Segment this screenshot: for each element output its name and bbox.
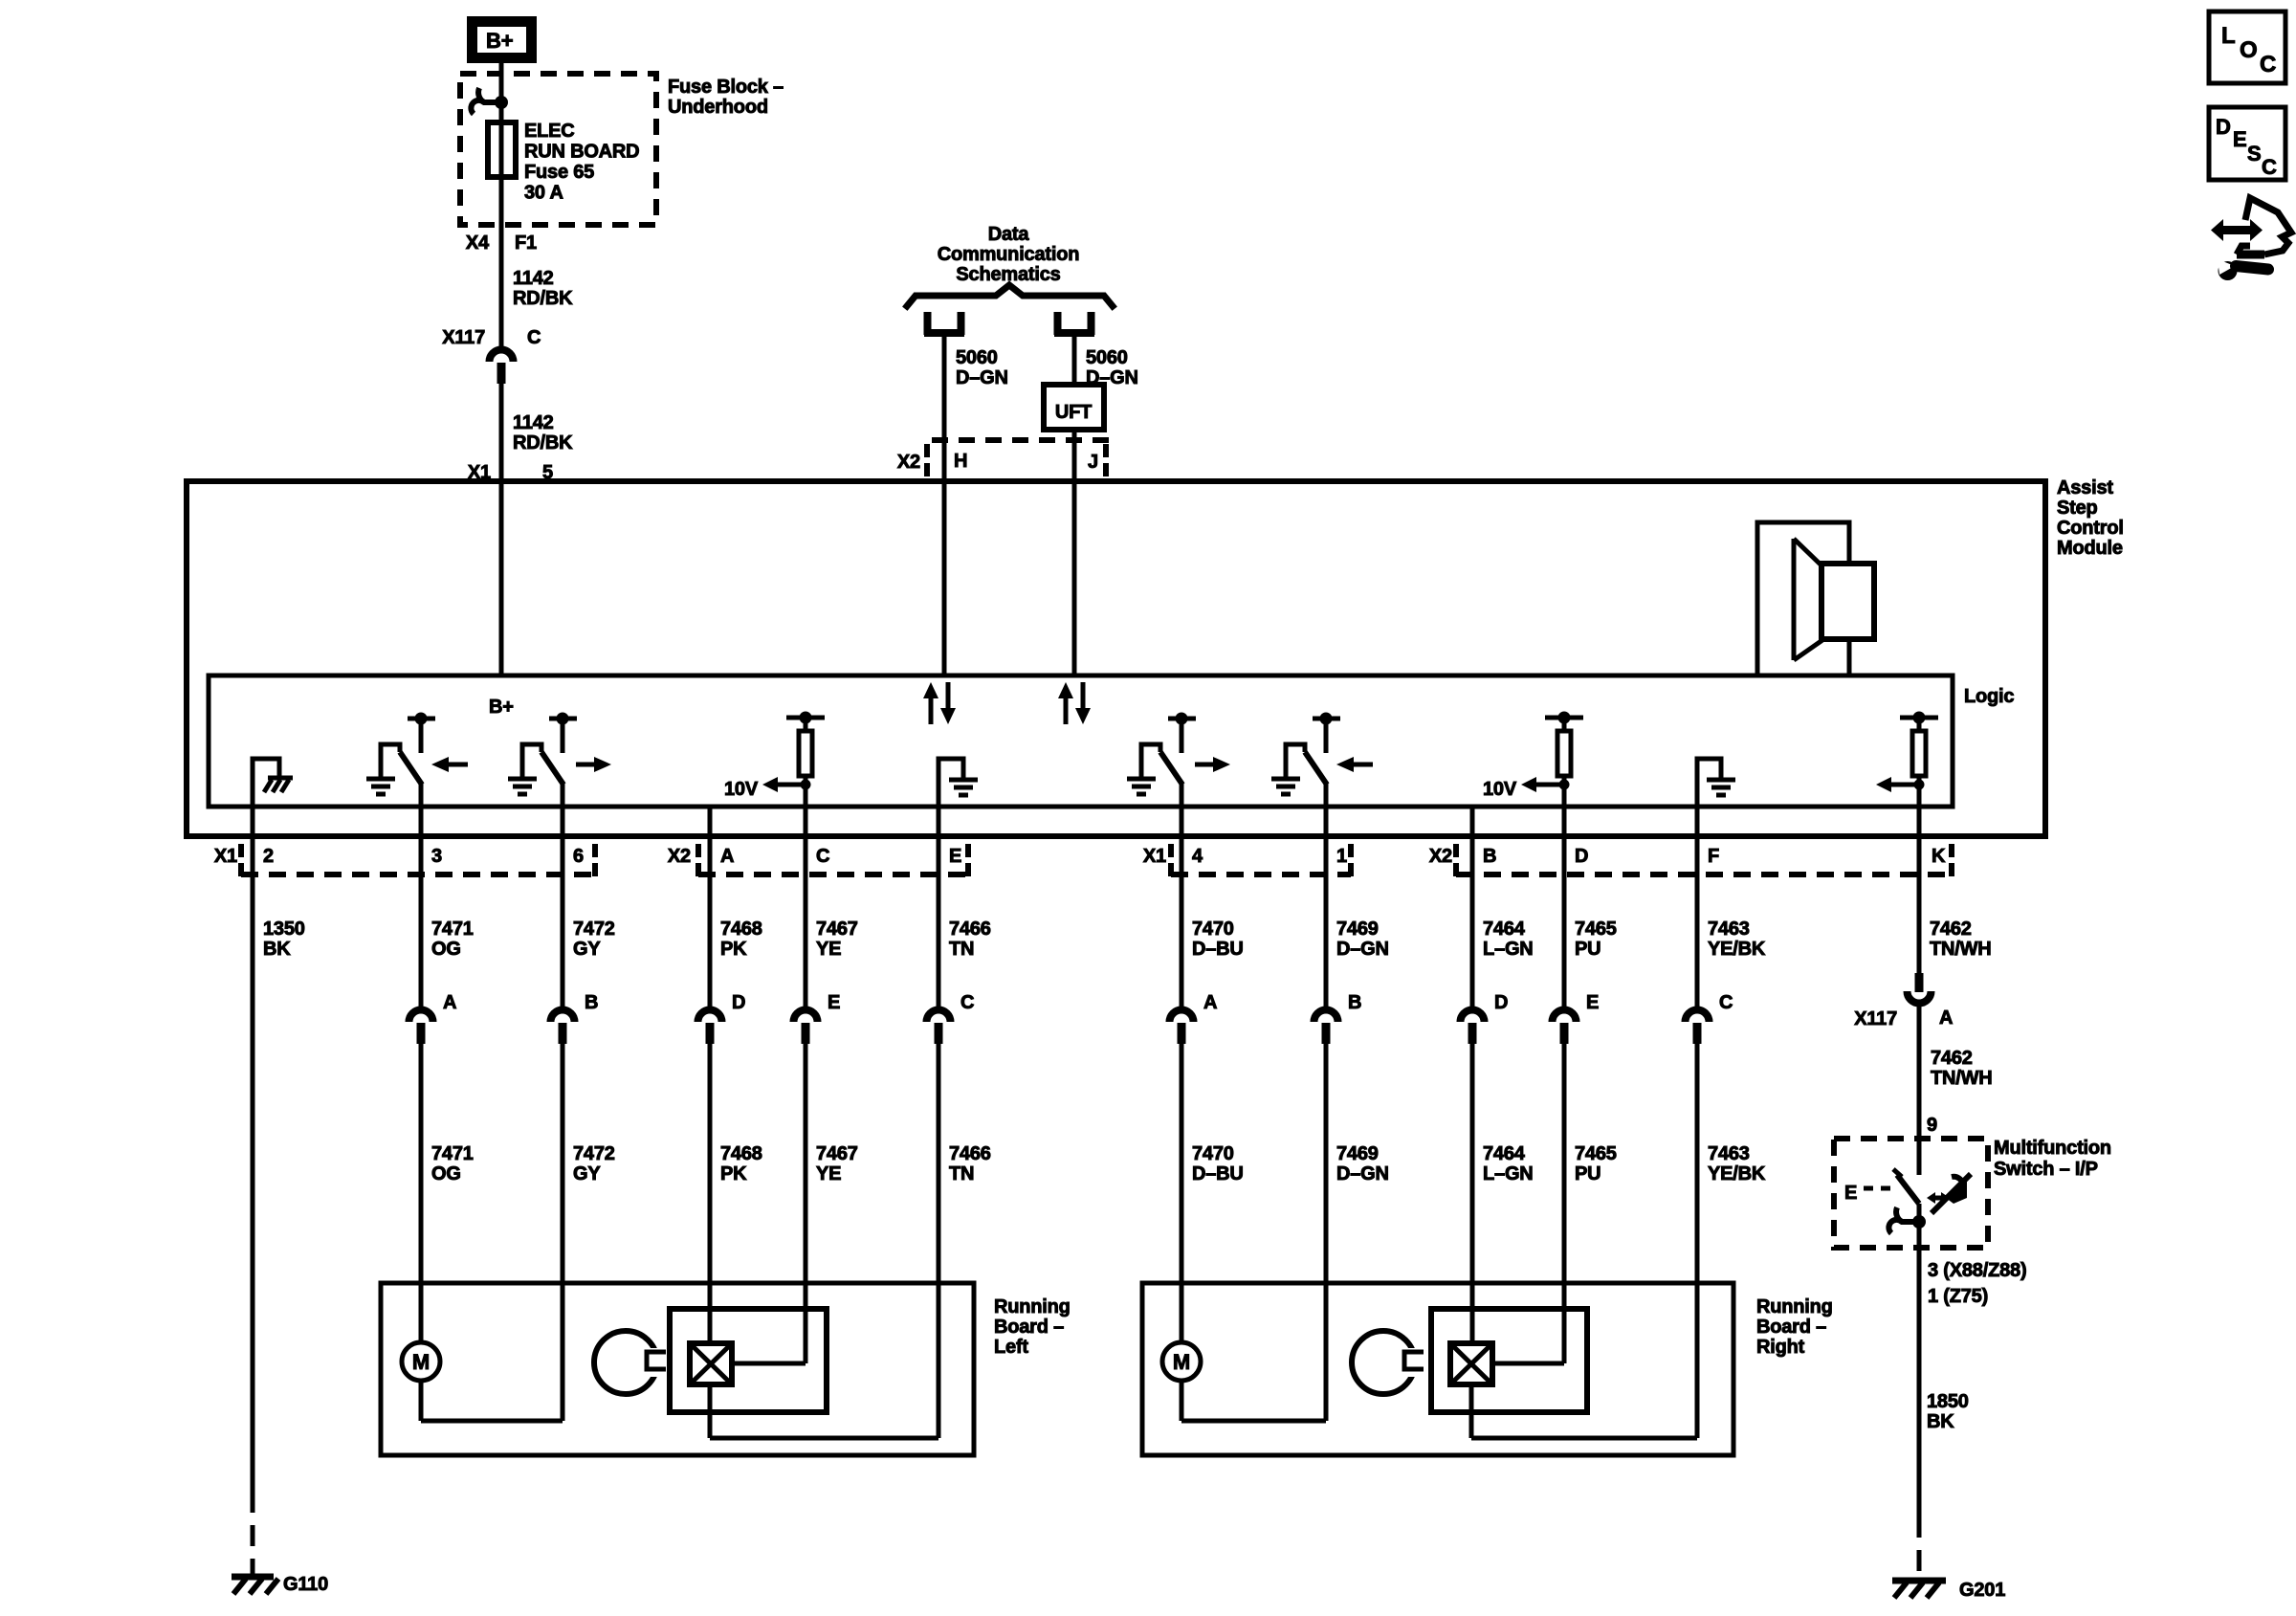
svg-text:7464: 7464 <box>1483 1143 1526 1164</box>
pin row dashed X2 left <box>698 872 968 877</box>
svg-text:BK: BK <box>263 939 291 960</box>
wire 7465 PU upper <box>1562 807 1567 1007</box>
svg-text:6: 6 <box>573 846 584 867</box>
svg-text:X117: X117 <box>442 327 485 348</box>
fuse block dashed box <box>460 74 656 225</box>
wire 7469 D–GN upper <box>1324 807 1329 1007</box>
wire 7466 TN lower <box>937 1042 941 1438</box>
wire to G110 dashed <box>251 1492 255 1575</box>
wire 7469 D–GN lower <box>1324 1042 1329 1421</box>
data arrows J <box>1064 697 1069 724</box>
brace <box>907 285 1113 306</box>
step icon MFS <box>1946 1177 1967 1204</box>
svg-text:7468: 7468 <box>720 1143 762 1164</box>
svg-text:Board –: Board – <box>994 1317 1064 1338</box>
svg-text:A: A <box>720 846 734 867</box>
wire 7463 YE/BK upper <box>1695 807 1700 1007</box>
svg-text:X4: X4 <box>466 232 490 254</box>
svg-text:1850: 1850 <box>1927 1391 1969 1412</box>
switch extend left <box>408 717 435 721</box>
svg-text:O: O <box>2240 37 2257 63</box>
svg-text:YE/BK: YE/BK <box>1708 939 1766 960</box>
svg-text:30 A: 30 A <box>524 183 563 204</box>
svg-text:1350: 1350 <box>263 919 305 940</box>
wire solenoid bottom left <box>708 1384 713 1438</box>
solenoid coil left <box>690 1343 732 1384</box>
speaker <box>1757 522 1849 675</box>
svg-text:X2: X2 <box>668 846 691 867</box>
svg-text:3: 3 <box>431 846 442 867</box>
wire 7464 L–GN lower <box>1470 1042 1475 1343</box>
wire to G201 dashed <box>1917 1516 1922 1577</box>
svg-text:Control: Control <box>2057 518 2124 539</box>
svg-text:TN/WH: TN/WH <box>1931 1068 1993 1089</box>
wire 1142 RD/BK to module <box>499 382 504 675</box>
box Running Board Left <box>381 1283 974 1455</box>
svg-text:TN: TN <box>949 1163 974 1184</box>
svg-text:Switch – I/P: Switch – I/P <box>1994 1159 2098 1180</box>
switch extend right <box>1168 717 1196 721</box>
svg-text:YE: YE <box>816 939 841 960</box>
svg-text:A: A <box>443 992 456 1013</box>
svg-text:Running: Running <box>1756 1296 1833 1317</box>
svg-text:1142: 1142 <box>513 268 554 289</box>
wire motor loop left <box>419 1381 424 1421</box>
wire 7468 PK lower <box>708 1042 713 1343</box>
fuse element hook <box>495 96 508 109</box>
svg-text:7466: 7466 <box>949 919 991 940</box>
svg-text:9: 9 <box>1927 1115 1937 1136</box>
svg-text:1142: 1142 <box>513 412 554 433</box>
wire 7462 TN/WH lower <box>1917 1007 1922 1175</box>
wire 7472 GY upper <box>561 807 565 1007</box>
svg-text:7462: 7462 <box>1931 1048 1973 1069</box>
wire below MFS <box>1917 1204 1922 1516</box>
svg-text:D: D <box>732 992 745 1013</box>
svg-text:YE/BK: YE/BK <box>1708 1163 1766 1184</box>
pin row dashed X1 right <box>1171 872 1351 877</box>
svg-text:A: A <box>1203 992 1217 1013</box>
connector terminal B <box>551 1009 575 1022</box>
svg-text:X2: X2 <box>1429 846 1452 867</box>
svg-text:B+: B+ <box>486 29 513 53</box>
svg-text:J: J <box>1088 452 1098 473</box>
svg-text:PK: PK <box>720 939 747 960</box>
svg-text:7468: 7468 <box>720 919 762 940</box>
wire 5060 D-GN left <box>942 335 947 675</box>
svg-text:C: C <box>2260 52 2276 77</box>
connector terminal A <box>409 1009 433 1022</box>
connector terminal A <box>1170 1009 1194 1022</box>
svg-text:D–GN: D–GN <box>1336 1163 1389 1184</box>
position sensor left <box>594 1331 657 1394</box>
svg-text:GY: GY <box>573 1163 601 1184</box>
data arrows H <box>929 697 934 724</box>
box UFT <box>1044 385 1104 430</box>
svg-text:D: D <box>2216 115 2231 139</box>
off-page connector right <box>1054 312 1062 335</box>
wire 7466 TN upper <box>937 807 941 1007</box>
pin row dashed X2 right <box>1456 872 1952 877</box>
motor M left <box>402 1342 440 1381</box>
clean ground pin E <box>938 759 963 808</box>
svg-text:RUN BOARD: RUN BOARD <box>524 142 639 163</box>
connector terminal E <box>794 1009 818 1022</box>
svg-text:F: F <box>1708 846 1719 867</box>
svg-text:B: B <box>1483 846 1496 867</box>
svg-text:7470: 7470 <box>1192 919 1234 940</box>
svg-text:7472: 7472 <box>573 919 615 940</box>
svg-text:Board –: Board – <box>1756 1317 1826 1338</box>
wire solenoid bottom right <box>1469 1384 1474 1438</box>
svg-text:TN: TN <box>949 939 974 960</box>
connector terminal C <box>1686 1009 1710 1022</box>
svg-text:7463: 7463 <box>1708 1143 1750 1164</box>
position sensor right <box>1352 1331 1415 1394</box>
fuse F65 30A <box>488 122 516 177</box>
svg-text:7471: 7471 <box>431 919 474 940</box>
wire 7470 D–BU lower <box>1180 1042 1184 1342</box>
svg-text:Communication: Communication <box>938 244 1080 265</box>
svg-text:X2: X2 <box>897 452 920 473</box>
resistor driver 10V left <box>786 716 825 720</box>
svg-text:H: H <box>954 451 967 472</box>
svg-text:1: 1 <box>1336 846 1347 867</box>
svg-text:Logic: Logic <box>1964 686 2014 707</box>
svg-text:7465: 7465 <box>1575 1143 1617 1164</box>
svg-text:5060: 5060 <box>956 347 998 368</box>
wire 7462 TN/WH upper <box>1917 807 1922 973</box>
svg-text:7462: 7462 <box>1930 919 1972 940</box>
svg-text:7469: 7469 <box>1336 1143 1379 1164</box>
svg-text:7463: 7463 <box>1708 919 1750 940</box>
svg-text:5060: 5060 <box>1086 347 1128 368</box>
svg-text:L: L <box>2221 23 2235 49</box>
svg-text:C: C <box>1719 992 1733 1013</box>
svg-text:Right: Right <box>1756 1337 1805 1358</box>
svg-text:7465: 7465 <box>1575 919 1617 940</box>
svg-text:10V: 10V <box>1483 779 1517 800</box>
connector terminal D <box>1461 1009 1485 1022</box>
clean ground pin F <box>1697 759 1721 808</box>
multifunction switch dashed box <box>1834 1139 1988 1248</box>
wire solenoid to E left <box>732 1361 806 1366</box>
svg-text:X1: X1 <box>214 846 237 867</box>
solenoid outer left <box>670 1309 827 1412</box>
connector terminal E <box>1553 1009 1577 1022</box>
wire 7463 YE/BK lower <box>1695 1042 1700 1438</box>
icon adjustable component <box>2222 226 2251 234</box>
switch retract right <box>1313 717 1340 721</box>
svg-text:ELEC: ELEC <box>524 121 575 142</box>
svg-text:C: C <box>2262 155 2277 179</box>
wire 7471 OG upper <box>419 807 424 1007</box>
svg-text:Multifunction: Multifunction <box>1994 1138 2111 1159</box>
svg-text:1 (Z75): 1 (Z75) <box>1928 1286 1988 1307</box>
wire 7467 YE lower <box>804 1042 808 1363</box>
svg-text:D–GN: D–GN <box>956 367 1008 388</box>
svg-text:B: B <box>1348 992 1361 1013</box>
svg-text:B+: B+ <box>489 697 514 718</box>
svg-text:OG: OG <box>431 1163 461 1184</box>
resistor driver 10V right <box>1545 716 1583 720</box>
svg-text:UFT: UFT <box>1055 402 1092 423</box>
svg-text:D: D <box>1575 846 1588 867</box>
svg-text:C: C <box>960 992 974 1013</box>
svg-text:7466: 7466 <box>949 1143 991 1164</box>
svg-text:A: A <box>1939 1007 1953 1029</box>
svg-text:7469: 7469 <box>1336 919 1379 940</box>
wire 7465 PU lower <box>1562 1042 1567 1363</box>
svg-text:D–BU: D–BU <box>1192 1163 1244 1184</box>
svg-text:C: C <box>527 327 541 348</box>
svg-text:10V: 10V <box>724 779 759 800</box>
wire UFT to module <box>1072 430 1077 675</box>
svg-text:BK: BK <box>1927 1411 1954 1432</box>
detent hook MFS <box>1912 1215 1926 1229</box>
svg-text:YE: YE <box>816 1163 841 1184</box>
wire 7467 YE upper <box>804 807 808 1007</box>
wire solenoid to E right <box>1492 1361 1564 1366</box>
logic box <box>209 675 1953 807</box>
solenoid coil right <box>1450 1343 1492 1384</box>
svg-text:PK: PK <box>720 1163 747 1184</box>
box Running Board Right <box>1142 1283 1733 1455</box>
solenoid outer right <box>1431 1309 1587 1412</box>
svg-text:PU: PU <box>1575 939 1601 960</box>
icon DESC <box>2209 107 2285 180</box>
svg-text:Underhood: Underhood <box>668 97 768 118</box>
svg-text:M: M <box>412 1350 430 1374</box>
motor M right <box>1162 1342 1201 1381</box>
connector X2 dashed line pins H J <box>932 437 1112 443</box>
svg-text:D–BU: D–BU <box>1192 939 1244 960</box>
svg-text:TN/WH: TN/WH <box>1930 939 1992 960</box>
svg-text:Left: Left <box>994 1337 1028 1358</box>
off-page connector left <box>924 312 932 335</box>
svg-text:M: M <box>1173 1350 1190 1374</box>
svg-text:OG: OG <box>431 939 461 960</box>
chassis ground in logic pin 2 <box>253 759 279 808</box>
connector terminal B <box>1314 1009 1338 1022</box>
svg-text:K: K <box>1932 846 1946 867</box>
svg-text:E: E <box>1586 992 1599 1013</box>
wire B+ to fuse block <box>499 63 504 346</box>
svg-text:7472: 7472 <box>573 1143 615 1164</box>
wire 7472 GY lower <box>561 1042 565 1421</box>
pin row dashed X1 left <box>241 872 595 877</box>
icon LOC <box>2209 11 2285 83</box>
switch retract left <box>549 717 577 721</box>
svg-text:7467: 7467 <box>816 1143 858 1164</box>
svg-text:E: E <box>949 846 961 867</box>
svg-text:7464: 7464 <box>1483 919 1526 940</box>
svg-text:C: C <box>816 846 829 867</box>
wire 7468 PK upper <box>708 807 713 1007</box>
power symbol B+ <box>473 22 532 58</box>
svg-text:G201: G201 <box>1959 1580 2005 1601</box>
svg-text:Fuse 65: Fuse 65 <box>524 162 594 183</box>
svg-text:PU: PU <box>1575 1163 1601 1184</box>
wire 7471 OG lower <box>419 1042 424 1342</box>
svg-text:GY: GY <box>573 939 601 960</box>
wire 7470 D–BU upper <box>1180 807 1184 1007</box>
svg-text:Step: Step <box>2057 498 2098 519</box>
svg-text:RD/BK: RD/BK <box>513 432 573 454</box>
svg-text:7467: 7467 <box>816 919 858 940</box>
svg-text:3 (X88/Z88): 3 (X88/Z88) <box>1928 1260 2026 1281</box>
wire 5060 D-GN right <box>1072 335 1077 385</box>
wire 1350 BK <box>251 807 255 1492</box>
connector terminal D <box>698 1009 722 1022</box>
svg-text:E: E <box>1844 1183 1857 1204</box>
svg-text:G110: G110 <box>283 1574 328 1595</box>
svg-text:F1: F1 <box>515 232 537 254</box>
svg-text:2: 2 <box>263 846 274 867</box>
module box Assist Step Control Module <box>187 481 2045 836</box>
connector X117 pin A <box>1915 973 1924 992</box>
ground G110 <box>232 1574 274 1581</box>
svg-text:S: S <box>2247 142 2261 166</box>
svg-text:X117: X117 <box>1854 1008 1897 1029</box>
svg-text:E: E <box>828 992 840 1013</box>
svg-text:L–GN: L–GN <box>1483 1163 1534 1184</box>
svg-text:7470: 7470 <box>1192 1143 1234 1164</box>
svg-text:RD/BK: RD/BK <box>513 288 573 309</box>
svg-text:Fuse Block –: Fuse Block – <box>668 77 784 98</box>
wire motor loop right <box>1180 1381 1184 1421</box>
svg-text:Data: Data <box>988 224 1030 245</box>
ground G201 <box>1892 1578 1946 1584</box>
svg-text:Assist: Assist <box>2057 477 2113 498</box>
wire 7464 L–GN upper <box>1470 807 1475 1007</box>
svg-text:D: D <box>1494 992 1508 1013</box>
resistor driver pin K <box>1900 716 1938 720</box>
svg-text:Module: Module <box>2057 538 2123 559</box>
svg-text:7471: 7471 <box>431 1143 474 1164</box>
svg-text:D–GN: D–GN <box>1336 939 1389 960</box>
svg-text:X1: X1 <box>1143 846 1166 867</box>
svg-text:L–GN: L–GN <box>1483 939 1534 960</box>
svg-text:4: 4 <box>1192 846 1203 867</box>
connector X117 pin C <box>490 350 514 363</box>
svg-text:B: B <box>585 992 598 1013</box>
svg-text:E: E <box>2233 127 2246 151</box>
connector terminal C <box>927 1009 951 1022</box>
svg-text:Running: Running <box>994 1296 1071 1317</box>
